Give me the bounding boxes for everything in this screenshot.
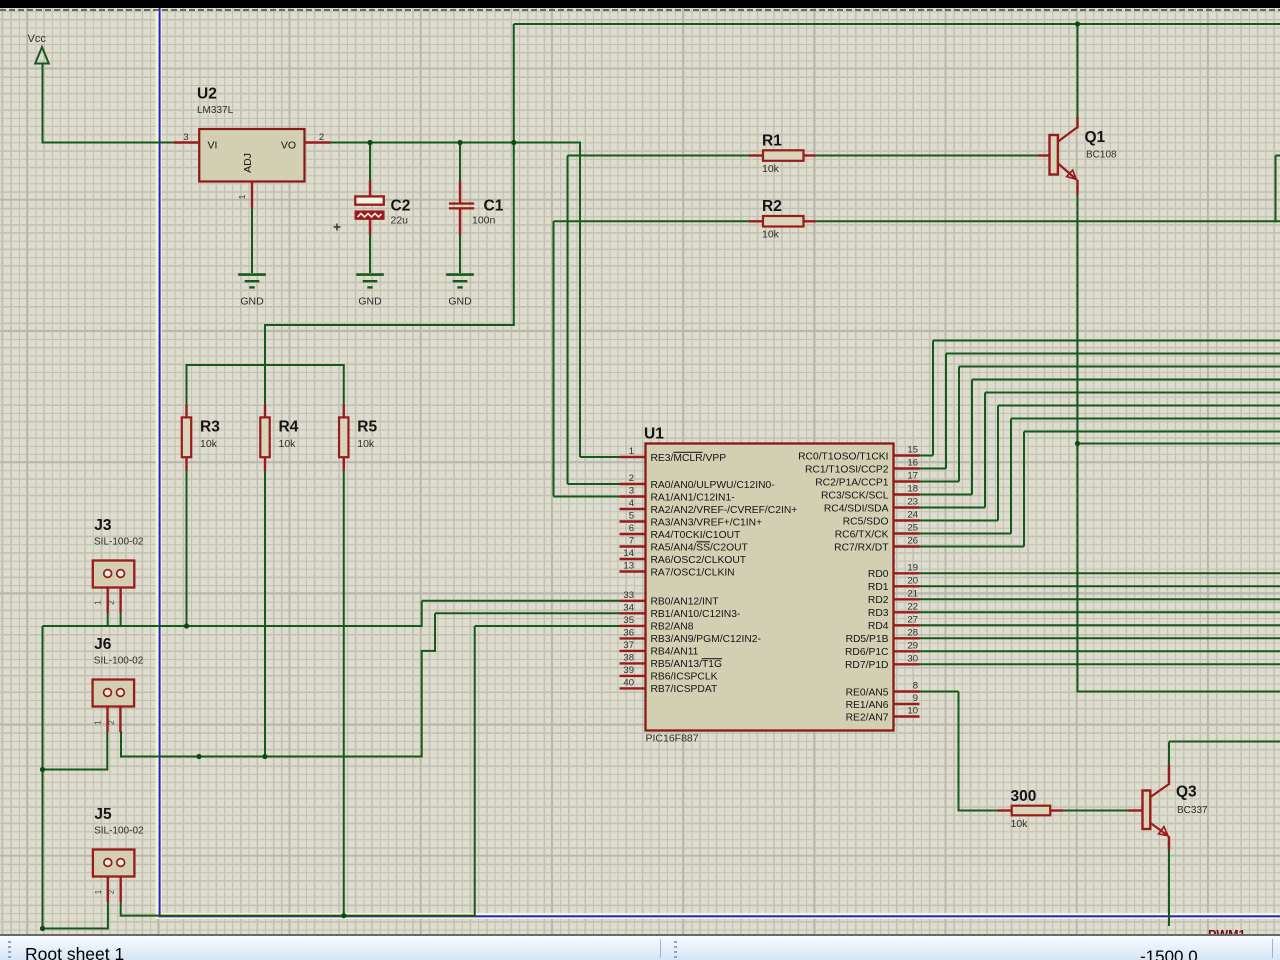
svg-text:10k: 10k	[762, 229, 780, 241]
svg-text:C1: C1	[484, 198, 504, 215]
wire RC1 net (pin 16)	[920, 468, 947, 470]
wire U2 ADJ to ground	[251, 208, 253, 274]
wire J6 pin1 drop	[106, 731, 108, 771]
svg-text:RB1/AN10/C12IN3-: RB1/AN10/C12IN3-	[651, 609, 741, 620]
wire MCLR net vertical x=580	[579, 143, 581, 458]
wire pin35 horizontal	[475, 625, 620, 627]
wire Q3 collector branch right	[1169, 741, 1280, 743]
svg-text:300: 300	[1011, 788, 1037, 805]
svg-text:37: 37	[623, 640, 634, 651]
svg-text:25: 25	[907, 523, 918, 534]
wire vertical x=265	[264, 325, 266, 366]
wire pin34 vertical lower	[421, 651, 423, 758]
resistor R4 10k	[260, 405, 298, 471]
wire RD1 net (pin 20)	[920, 585, 1280, 587]
wire J5 row bottom	[121, 915, 475, 917]
wire horizontal to resistor rail	[264, 324, 515, 326]
wire C2 top	[369, 143, 371, 182]
svg-text:10k: 10k	[762, 163, 780, 175]
wire RC5 net (pin 24)	[920, 520, 999, 522]
power symbol Vcc	[35, 47, 49, 64]
svg-text:RB3/AN9/PGM/C12IN2-: RB3/AN9/PGM/C12IN2-	[651, 634, 761, 645]
svg-text:RB6/ICSPCLK: RB6/ICSPCLK	[651, 672, 718, 683]
wire RC2 net (pin 17)	[920, 481, 960, 483]
wire J5 pin1 drop	[107, 901, 109, 930]
U1 pin 4 RA2/AN2/VREF-/CVREF/C2IN+	[620, 498, 798, 516]
svg-text:100n: 100n	[472, 215, 496, 227]
svg-text:28: 28	[907, 627, 918, 638]
svg-text:RA3/AN3/VREF+/C1IN+: RA3/AN3/VREF+/C1IN+	[651, 517, 763, 528]
ground	[446, 275, 474, 308]
wire R1 net vertical to U1 pin2	[567, 156, 569, 485]
svg-text:RD6/P1C: RD6/P1C	[845, 647, 889, 658]
wire J3 pin1 drop	[107, 613, 109, 627]
wire RC3 net (pin 18)	[920, 494, 973, 496]
svg-text:RB0/AN12/INT: RB0/AN12/INT	[651, 597, 720, 608]
U1 pin 20 RD1	[868, 575, 920, 593]
svg-text:GND: GND	[448, 296, 472, 308]
svg-text:R4: R4	[279, 419, 299, 436]
svg-text:34: 34	[623, 602, 634, 613]
wire pin34 jog	[421, 650, 436, 652]
svg-text:RA6/OSC2/CLKOUT: RA6/OSC2/CLKOUT	[651, 555, 747, 566]
microcontroller U1 PIC16F887	[644, 426, 894, 745]
wire J5 pin2 drop	[120, 901, 122, 917]
U1 pin 8 RE0/AN5	[846, 681, 920, 699]
wire R4 bottom	[264, 470, 266, 758]
wire R3 top	[186, 365, 188, 406]
junction	[511, 140, 516, 145]
U1 pin 33 RB0/AN12/INT	[620, 590, 720, 608]
wire C1 bottom	[459, 234, 461, 273]
svg-text:SIL-100-02: SIL-100-02	[94, 537, 144, 548]
svg-text:RC2/P1A/CCP1: RC2/P1A/CCP1	[815, 477, 889, 488]
svg-text:RA2/AN2/VREF-/CVREF/C2IN+: RA2/AN2/VREF-/CVREF/C2IN+	[651, 505, 798, 516]
C2 polarity mark	[334, 226, 341, 228]
svg-text:RB5/AN13/T1G: RB5/AN13/T1G	[651, 659, 723, 670]
svg-text:23: 23	[907, 497, 918, 508]
svg-text:10k: 10k	[1011, 818, 1029, 830]
U1 pin 39 RB6/ICSPCLK	[620, 665, 718, 683]
wire Q3 collector up	[1168, 742, 1170, 767]
svg-text:16: 16	[907, 458, 918, 469]
U1 pin 5 RA3/AN3/VREF+/C1IN+	[620, 511, 763, 529]
svg-text:30: 30	[907, 653, 918, 664]
wire pin34 vertical upper	[434, 613, 436, 652]
wire RC0 net (pin 15)	[920, 455, 934, 457]
wire to pin1	[580, 456, 620, 458]
svg-text:19: 19	[907, 562, 918, 573]
wire branch down at x=514	[513, 24, 515, 326]
wire RD6 net (pin 29)	[920, 650, 1280, 652]
svg-text:38: 38	[623, 652, 634, 663]
svg-text:24: 24	[907, 510, 918, 521]
svg-text:1: 1	[94, 720, 103, 725]
svg-text:RD2: RD2	[868, 595, 889, 606]
U1 pin 2 RA0/AN0/ULPWU/C12IN0-	[620, 473, 775, 491]
U2 pin 3 (VI)	[174, 141, 199, 143]
svg-text:Q1: Q1	[1085, 129, 1106, 146]
svg-text:39: 39	[623, 665, 634, 676]
svg-text:RB2/AN8: RB2/AN8	[651, 622, 694, 633]
U1 pin 14 RA6/OSC2/CLKOUT	[620, 548, 747, 566]
wire R2 right to sheet edge	[816, 220, 1280, 222]
wire to pin2	[568, 483, 620, 485]
svg-text:RC5/SDO: RC5/SDO	[843, 516, 889, 527]
svg-text:3: 3	[183, 132, 188, 143]
wire pin35 vertical	[474, 626, 476, 917]
svg-text:1: 1	[629, 446, 634, 457]
regulator U2 LM337L	[174, 86, 331, 208]
U1 pin 15 RC0/T1OSO/T1CKI	[798, 445, 919, 463]
svg-text:J3: J3	[94, 517, 112, 534]
junction	[196, 754, 201, 759]
junction	[341, 913, 346, 918]
wire RC4 net (pin 23)	[920, 507, 986, 509]
svg-text:RE0/AN5: RE0/AN5	[846, 687, 889, 698]
svg-text:GND: GND	[240, 296, 264, 308]
svg-text:13: 13	[623, 561, 634, 572]
ground	[238, 275, 266, 308]
junction	[1075, 21, 1080, 26]
svg-text:2: 2	[107, 889, 116, 894]
junction	[40, 926, 45, 931]
U1 pin 26 RC7/RX/DT	[834, 536, 919, 554]
svg-text:BC337: BC337	[1177, 805, 1208, 816]
svg-text:RE3/MCLR/VPP: RE3/MCLR/VPP	[651, 453, 727, 464]
wire R1 right to Q1 base	[816, 155, 1039, 157]
svg-text:1: 1	[237, 194, 247, 199]
svg-text:PIC16F887: PIC16F887	[646, 733, 699, 745]
svg-text:14: 14	[623, 548, 634, 559]
svg-text:RD0: RD0	[868, 569, 889, 580]
svg-text:4: 4	[629, 498, 634, 509]
svg-text:17: 17	[907, 471, 918, 482]
U1 pin 23 RC4/SDI/SDA	[824, 497, 920, 515]
wire C2 bottom	[369, 234, 371, 273]
svg-text:21: 21	[907, 588, 918, 599]
svg-text:J5: J5	[94, 806, 112, 823]
wire J6 row	[121, 756, 422, 758]
svg-text:RC7/RX/DT: RC7/RX/DT	[834, 542, 889, 553]
svg-text:RA1/AN1/C12IN1-: RA1/AN1/C12IN1-	[651, 492, 735, 503]
svg-text:10: 10	[907, 706, 918, 717]
wire R5 bottom	[343, 470, 345, 917]
svg-text:GND: GND	[358, 296, 382, 308]
wire emitter branch right at y=443	[1078, 443, 1280, 445]
U1 pin 25 RC6/TX/CK	[835, 523, 920, 541]
svg-text:LM337L: LM337L	[197, 105, 234, 116]
U1 pin 40 RB7/ICSPDAT	[620, 677, 718, 695]
U1 pin 13 RA7/OSC1/CLKIN	[620, 561, 735, 579]
svg-text:RC0/T1OSO/T1CKI: RC0/T1OSO/T1CKI	[798, 451, 888, 462]
wire R4 top	[264, 365, 266, 406]
svg-text:18: 18	[907, 484, 918, 495]
resistor R3 10k	[182, 405, 220, 471]
svg-text:R3: R3	[200, 419, 220, 436]
svg-text:RA4/T0CKI/C1OUT: RA4/T0CKI/C1OUT	[651, 530, 742, 541]
svg-text:9: 9	[913, 693, 918, 704]
U1 pin 30 RD7/P1D	[845, 653, 920, 671]
svg-text:6: 6	[629, 523, 634, 534]
svg-text:VI: VI	[208, 140, 218, 152]
U1 pin 29 RD6/P1C	[845, 640, 920, 658]
junction	[184, 623, 189, 628]
svg-text:22: 22	[907, 601, 918, 612]
U1 pin 21 RD2	[868, 588, 920, 606]
wire RD0 net (pin 19)	[920, 572, 1280, 574]
svg-text:2: 2	[319, 132, 324, 143]
U1 pin 36 RB3/AN9/PGM/C12IN2-	[620, 627, 761, 645]
wire RE0 to corner	[920, 691, 959, 693]
U1 pin 16 RC1/T1OSI/CCP2	[805, 458, 920, 476]
svg-text:29: 29	[907, 640, 918, 651]
U1 pin 37 RB4/AN11	[620, 640, 699, 658]
wire RC7 net (pin 26)	[920, 546, 1025, 548]
U1 pin 10 RE2/AN7	[846, 706, 920, 724]
svg-text:VO: VO	[281, 140, 296, 152]
ground	[356, 275, 384, 308]
U1 pin 35 RB2/AN8	[620, 615, 694, 633]
U1 pin 24 RC5/SDO	[843, 510, 920, 528]
junction	[262, 754, 267, 759]
wire pin33 vertical	[421, 601, 423, 627]
svg-text:15: 15	[907, 445, 918, 456]
U1 pin 34 RB1/AN10/C12IN3-	[620, 602, 741, 620]
wire pin34 horizontal	[435, 612, 620, 614]
svg-text:10k: 10k	[200, 438, 218, 450]
transistor Q3 BC337	[1129, 765, 1209, 850]
wire RE0 vertical	[958, 692, 960, 812]
wire pin33 horizontal	[422, 600, 620, 602]
status coordinate readout	[1140, 947, 1198, 960]
wire RD3 net (pin 22)	[920, 611, 1280, 613]
junction	[40, 767, 45, 772]
wire RD5 net (pin 28)	[920, 637, 1280, 639]
wire RD4 net (pin 27)	[920, 624, 1280, 626]
capacitor C1 100n	[449, 181, 504, 235]
wire emitter branch right at y=691	[1078, 691, 1280, 693]
wire RC6 net (pin 25)	[920, 533, 1012, 535]
svg-text:RC1/T1OSI/CCP2: RC1/T1OSI/CCP2	[805, 464, 889, 475]
wire J6 pin2 drop	[120, 731, 122, 758]
resistor R1 10k	[749, 132, 816, 175]
junction	[457, 140, 462, 145]
svg-text:RD3: RD3	[868, 608, 889, 619]
svg-text:U2: U2	[197, 86, 217, 103]
wire Q1 collector up	[1077, 24, 1079, 116]
svg-text:40: 40	[623, 677, 634, 688]
wire J3 pin2 drop	[120, 613, 122, 627]
svg-text:2: 2	[107, 720, 116, 725]
wire left bus vertical	[42, 626, 44, 930]
svg-text:RE2/AN7: RE2/AN7	[846, 712, 889, 723]
svg-text:1: 1	[94, 600, 103, 605]
wire Q1 emitter down	[1077, 194, 1079, 693]
svg-text:RE1/AN6: RE1/AN6	[846, 700, 889, 711]
wire RE0 to resistor 300	[959, 810, 998, 812]
wire R3 bottom	[186, 470, 188, 628]
junction	[367, 140, 372, 145]
svg-text:33: 33	[623, 590, 634, 601]
wire J5 pin1 row	[42, 928, 108, 930]
svg-text:3: 3	[629, 486, 634, 497]
svg-text:8: 8	[913, 681, 918, 692]
wire R5 top	[343, 365, 345, 406]
svg-text:R5: R5	[357, 419, 377, 436]
wire Vcc vertical	[42, 64, 44, 144]
wire Q3 emitter down	[1168, 849, 1170, 926]
svg-text:RD7/P1D: RD7/P1D	[845, 660, 889, 671]
svg-text:20: 20	[907, 575, 918, 586]
svg-text:ADJ: ADJ	[242, 153, 254, 173]
U1 pin 27 RD4	[868, 614, 920, 632]
capacitor C2 22u	[334, 181, 411, 236]
svg-text:10k: 10k	[279, 438, 297, 450]
svg-text:RC3/SCK/SCL: RC3/SCK/SCL	[821, 490, 889, 501]
wire resistor top rail	[186, 364, 345, 366]
U1 pin 28 RD5/P1B	[846, 627, 920, 645]
U1 pin 18 RC3/SCK/SCL	[821, 484, 920, 502]
svg-text:RC6/TX/CK: RC6/TX/CK	[835, 529, 889, 540]
svg-text:26: 26	[907, 536, 918, 547]
wire edge stub top	[1276, 155, 1280, 157]
wire edge vertical	[1275, 156, 1277, 223]
svg-text:RD4: RD4	[868, 621, 889, 632]
junction	[1075, 441, 1080, 446]
svg-text:RA5/AN4/SS/C2OUT: RA5/AN4/SS/C2OUT	[651, 542, 749, 553]
svg-text:R1: R1	[762, 132, 782, 149]
wire RD7 net (pin 30)	[920, 663, 1280, 665]
svg-text:35: 35	[623, 615, 634, 626]
wire Vcc to U2 VI	[42, 142, 175, 144]
U1 pin 19 RD0	[868, 562, 920, 580]
connector J5 SIL-100-02	[93, 806, 144, 902]
svg-text:BC108: BC108	[1086, 150, 1117, 161]
svg-text:SIL-100-02: SIL-100-02	[94, 656, 144, 667]
svg-text:1: 1	[94, 889, 103, 894]
U1 pin 9 RE1/AN6	[846, 693, 920, 711]
wire R2 left	[554, 220, 751, 222]
wire J6 pin1 row	[42, 769, 108, 771]
svg-text:10k: 10k	[357, 438, 375, 450]
svg-text:U1: U1	[644, 426, 664, 443]
svg-text:2: 2	[629, 473, 634, 484]
U2 pin 2 (VO)	[305, 141, 331, 143]
svg-text:RA7/OSC1/CLKIN: RA7/OSC1/CLKIN	[651, 567, 735, 578]
svg-text:SIL-100-02: SIL-100-02	[94, 826, 144, 837]
U1 pin 17 RC2/P1A/CCP1	[815, 471, 919, 489]
U1 pin 6 RA4/T0CKI/C1OUT	[620, 523, 742, 541]
svg-text:RA0/AN0/ULPWU/C12IN0-: RA0/AN0/ULPWU/C12IN0-	[651, 480, 775, 491]
U1 pin 3 RA1/AN1/C12IN1-	[620, 486, 735, 504]
wire 300 to Q3 base	[1063, 810, 1129, 812]
svg-text:7: 7	[629, 536, 634, 547]
svg-text:J6: J6	[94, 636, 112, 653]
svg-text:C2: C2	[391, 198, 411, 215]
svg-text:RB7/ICSPDAT: RB7/ICSPDAT	[651, 684, 718, 695]
wire R1 left	[568, 155, 751, 157]
connector J6 SIL-100-02	[93, 636, 144, 732]
svg-text:RB4/AN11: RB4/AN11	[651, 647, 699, 658]
wire RD2 net (pin 21)	[920, 598, 1280, 600]
svg-text:27: 27	[907, 614, 918, 625]
U1 pin 22 RD3	[868, 601, 920, 619]
svg-text:Q3: Q3	[1176, 784, 1197, 801]
status bar	[0, 934, 1280, 960]
wire C1 top	[459, 143, 461, 183]
wire R2 net vertical to U1 pin3	[553, 221, 555, 496]
svg-text:2: 2	[107, 600, 116, 605]
U1 pin 1 RE3/MCLR/VPP	[620, 446, 727, 464]
resistor R5 10k	[339, 405, 377, 471]
power rail top wire	[514, 23, 1280, 25]
resistor R2 10k	[749, 198, 816, 241]
wire U2 VO output	[331, 142, 582, 144]
svg-text:RD1: RD1	[868, 582, 889, 593]
svg-text:Vcc: Vcc	[28, 33, 47, 45]
svg-text:RC4/SDI/SDA: RC4/SDI/SDA	[824, 503, 889, 514]
svg-text:5: 5	[629, 511, 634, 522]
U2 pin 1 (ADJ)	[251, 182, 253, 208]
wire J3 bus	[43, 625, 422, 627]
U1 pin 38 RB5/AN13/T1G	[620, 652, 723, 670]
wire to pin3	[554, 496, 620, 498]
resistor 300 10k	[997, 788, 1063, 830]
connector J3 SIL-100-02	[93, 517, 144, 613]
svg-text:R2: R2	[762, 198, 782, 215]
transistor Q1 BC108	[1038, 116, 1117, 194]
svg-text:22u: 22u	[391, 215, 409, 227]
status text Root sheet 1	[25, 944, 124, 960]
svg-text:36: 36	[623, 627, 634, 638]
U1 pin 7 RA5/AN4/SS/C2OUT	[620, 536, 749, 554]
svg-text:RD5/P1B: RD5/P1B	[846, 634, 889, 645]
